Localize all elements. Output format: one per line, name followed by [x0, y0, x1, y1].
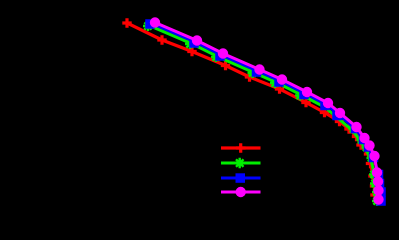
legend entry 4: magenta sample line with circle marker — [221, 187, 261, 197]
blue data curve (series 3, solid line, filled square markers) — [145, 19, 386, 206]
legend entry 3: blue sample line with square marker — [221, 173, 261, 183]
red data curve (series 1, solid line, plus markers) — [122, 18, 379, 203]
green data curve (series 2, solid line, asterisk markers) — [143, 21, 382, 206]
magenta data curve (series 4, solid line, filled circle markers) — [150, 17, 384, 204]
legend entry 2: green sample line with asterisk marker — [221, 158, 261, 169]
legend entry 1: red sample line with plus marker — [221, 143, 261, 153]
